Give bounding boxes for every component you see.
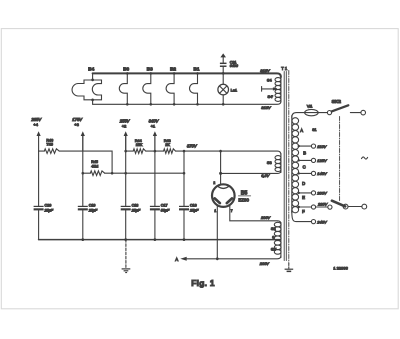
svg-text:E: E: [302, 195, 305, 200]
wire ground rail / centre tap 0: [39, 239, 281, 241]
svg-text:A: A: [175, 257, 178, 262]
svg-text:B3: B3: [147, 67, 153, 72]
tube heater B4: [92, 73, 94, 80]
ground (core): [288, 264, 290, 269]
svg-text:110V: 110V: [317, 144, 326, 149]
svg-text:C18: C18: [132, 203, 139, 207]
svg-text:370V: 370V: [187, 143, 198, 148]
wire heater bottom rail: [93, 101, 281, 104]
svg-text:B6: B6: [123, 67, 129, 72]
svg-text:200V: 200V: [260, 215, 270, 220]
resistor R44: [133, 149, 146, 154]
svg-text:B5: B5: [241, 190, 248, 196]
svg-text:C20: C20: [45, 203, 52, 207]
svg-text:318V: 318V: [261, 105, 271, 110]
svg-text:1 2286S: 1 2286S: [333, 266, 348, 271]
wire vertical at x=82.8: [82, 136, 84, 206]
node arrow above C21: [220, 53, 226, 57]
tube heater B6: [119, 73, 127, 104]
svg-text:7K5: 7K5: [46, 143, 53, 147]
winding heater (left top): [280, 75, 282, 102]
core: [283, 72, 285, 261]
svg-text:+4: +4: [33, 122, 38, 127]
svg-text:B1: B1: [194, 67, 200, 72]
capacitor C18: [121, 206, 131, 207]
wire vertical at x=125.7: [125, 136, 127, 206]
terminal 245V: [292, 211, 312, 222]
wire vertical at x=154.9: [154, 136, 156, 206]
AC mains tilde: [362, 157, 368, 159]
svg-text:S1: S1: [312, 128, 316, 132]
winding HT (left bottom): [280, 223, 282, 258]
wire 285V line L1a: [39, 150, 45, 152]
capacitor C21: [220, 63, 227, 64]
svg-text:25µF: 25µF: [189, 209, 199, 213]
tube heater B3: [143, 73, 151, 104]
wire 6,3V heater line: [221, 171, 281, 174]
svg-text:B2: B2: [170, 67, 176, 72]
svg-text:Fig. 1: Fig. 1: [191, 278, 215, 288]
svg-text:C17: C17: [161, 203, 168, 207]
svg-text:La1: La1: [231, 87, 238, 92]
ground: [125, 240, 127, 268]
tube heater B1: [190, 73, 198, 104]
resistor R43: [164, 149, 176, 154]
node 285V: [37, 131, 41, 136]
svg-text:D: D: [302, 181, 305, 186]
capacitor C19: [78, 206, 88, 207]
svg-text:A: A: [300, 128, 303, 133]
switch linkage: [339, 117, 341, 202]
svg-text:B: B: [303, 151, 306, 156]
svg-text:C19: C19: [89, 203, 96, 207]
svg-text:S2': S2': [271, 247, 277, 252]
wire 255V line L1b: [126, 150, 134, 152]
svg-text:F: F: [302, 209, 305, 214]
svg-text:SK2: SK2: [332, 99, 342, 105]
svg-text:Vl1: Vl1: [307, 104, 313, 108]
tube B5 (EZ80 rectifier): [212, 184, 235, 207]
svg-text:25µF: 25µF: [44, 209, 54, 213]
wire cathode drop: [220, 151, 222, 185]
wire heater top rail: [93, 73, 281, 77]
wire L2 line: [83, 172, 91, 174]
wire vertical at x=38.6: [38, 151, 40, 206]
tube heater B2: [166, 73, 174, 104]
svg-text:S4: S4: [267, 78, 273, 83]
wire R46 to bend: [59, 151, 112, 173]
resistor R45: [90, 171, 104, 176]
switch SK2 pole 1: [327, 111, 331, 115]
capacitor C17: [150, 206, 160, 207]
node 175V: [81, 131, 85, 136]
terminal 145V: [298, 172, 300, 174]
wire cathode pin down to A line: [216, 206, 218, 258]
svg-text:T 1: T 1: [281, 66, 288, 71]
svg-text:200V: 200V: [316, 191, 327, 196]
svg-text:C: C: [303, 164, 306, 169]
node A with arrow: [180, 257, 186, 261]
svg-text:6,3V: 6,3V: [261, 173, 269, 178]
svg-text:25µF: 25µF: [88, 209, 98, 213]
winding 6.3V (left middle): [280, 154, 282, 173]
svg-text:125V: 125V: [317, 158, 327, 163]
wire C21 to rail: [222, 67, 224, 73]
svg-text:1: 1: [214, 209, 216, 213]
svg-text:245V: 245V: [316, 219, 327, 224]
svg-text:B4: B4: [88, 67, 94, 72]
svg-text:45M: 45M: [91, 164, 98, 168]
wire vertical at x=184.0: [183, 151, 185, 206]
wire top lead to fuse: [292, 113, 305, 118]
svg-text:200V: 200V: [259, 261, 269, 266]
svg-text:6400: 6400: [230, 64, 239, 68]
wire 370V rail: [176, 151, 281, 154]
wire anode to HT winding: [230, 206, 281, 224]
svg-text:EZ80: EZ80: [238, 197, 249, 202]
svg-text:15K: 15K: [136, 143, 143, 147]
winding mains (right): [291, 116, 293, 213]
svg-text:7: 7: [231, 209, 233, 213]
svg-text:25µF: 25µF: [131, 209, 141, 213]
svg-text:S2: S2: [271, 226, 276, 231]
node 340V: [153, 131, 157, 136]
svg-text:2K: 2K: [165, 143, 170, 147]
resistor R46: [44, 149, 59, 154]
svg-text:220V: 220V: [317, 202, 328, 207]
lamp La1: [222, 73, 224, 84]
svg-text:S4': S4': [268, 94, 274, 99]
svg-text:318V: 318V: [260, 68, 270, 73]
fuse Vl1: [305, 109, 319, 115]
terminal 110V: [298, 145, 300, 147]
terminal 125V: [298, 159, 300, 161]
svg-text:2: 2: [213, 181, 215, 185]
terminal 200V: [298, 192, 300, 194]
terminal 220V + switch SK2 pole 2: [298, 206, 300, 208]
svg-text:+2: +2: [122, 124, 127, 129]
capacitor C20: [34, 206, 44, 207]
svg-text:S3: S3: [267, 160, 272, 165]
svg-text:50µF: 50µF: [161, 209, 170, 213]
svg-text:C16: C16: [190, 203, 197, 207]
capacitor C16: [179, 206, 189, 207]
svg-text:145V: 145V: [317, 171, 327, 176]
tap arrow: [261, 87, 263, 92]
svg-text:+3: +3: [74, 122, 79, 127]
svg-text:+1: +1: [151, 124, 156, 129]
node 255V: [124, 131, 128, 136]
